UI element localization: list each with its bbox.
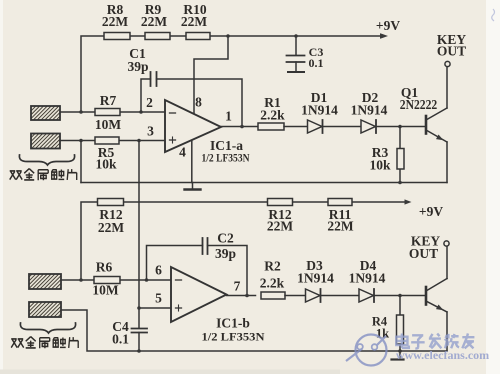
wire pin5 row bbox=[139, 307, 171, 309]
wire mid +9V rail bbox=[81, 202, 408, 280]
svg-text:1/2 LF353N: 1/2 LF353N bbox=[202, 330, 265, 344]
transistor Q1 bbox=[426, 67, 447, 183]
svg-text:+9V: +9V bbox=[419, 204, 443, 219]
resistor R11 bbox=[328, 199, 352, 206]
wire pin6 row bbox=[61, 279, 171, 281]
svg-text:R6: R6 bbox=[96, 260, 113, 275]
svg-text:22M: 22M bbox=[141, 14, 168, 29]
node R4/rail junction bbox=[398, 349, 402, 353]
svg-text:R7: R7 bbox=[100, 93, 117, 108]
op-amp U2 IC1-b bbox=[171, 267, 227, 322]
node output junction bbox=[240, 125, 244, 129]
svg-text:www.elecfans.com: www.elecfans.com bbox=[396, 348, 489, 362]
svg-text:0.1: 0.1 bbox=[112, 332, 129, 347]
wire pin8 supply drop bbox=[194, 36, 228, 114]
node pad2/ground junction bbox=[79, 139, 83, 143]
wire pin3 row bbox=[60, 140, 166, 142]
touch pad P2 bbox=[31, 134, 60, 149]
touch pad P3 bbox=[29, 274, 61, 289]
svg-text:1/2 LF353N: 1/2 LF353N bbox=[202, 151, 250, 165]
ground (C3) bbox=[288, 71, 304, 73]
capacitor C2 with feedback wire bbox=[147, 238, 248, 296]
svg-text:5: 5 bbox=[155, 291, 162, 306]
wire output pin7 row bbox=[227, 295, 256, 297]
resistor R8 bbox=[104, 33, 130, 40]
diode D3 bbox=[306, 289, 360, 302]
watermark logo elecfans bbox=[346, 335, 387, 366]
resistor R7 bbox=[95, 109, 120, 116]
watermark text 电子发烧友 bbox=[396, 333, 474, 348]
node C4 ground junction bbox=[137, 349, 141, 353]
wire top ground rail bbox=[81, 182, 447, 184]
svg-text:2.2k: 2.2k bbox=[260, 276, 285, 291]
brace (top pads) bbox=[19, 155, 74, 165]
resistor R9 bbox=[145, 33, 170, 40]
svg-text:7: 7 bbox=[234, 279, 241, 294]
wire bottom ground rail bbox=[61, 310, 447, 351]
svg-text:22M: 22M bbox=[98, 220, 125, 235]
capacitor C3 bbox=[287, 36, 305, 71]
resistor R6 bbox=[94, 277, 120, 284]
+9V mid arrow bbox=[405, 199, 412, 204]
ground (R4) bbox=[392, 358, 404, 360]
node: C3 junction bbox=[294, 34, 298, 38]
svg-text:2: 2 bbox=[146, 95, 153, 110]
touch pad P1 bbox=[31, 106, 60, 120]
svg-text:22M: 22M bbox=[327, 219, 354, 234]
resistor R1 bbox=[258, 123, 308, 130]
node pin3 junction bbox=[137, 139, 141, 143]
svg-text:3: 3 bbox=[147, 124, 154, 139]
svg-text:OUT: OUT bbox=[437, 44, 466, 59]
op-amp U1 IC1-a bbox=[165, 100, 221, 183]
wire left ground drop bbox=[80, 141, 82, 183]
node R3 ground junction bbox=[398, 181, 402, 185]
wire output pin1 row bbox=[221, 126, 258, 128]
svg-text:1N914: 1N914 bbox=[351, 103, 388, 118]
node: R10/+9V junction bbox=[226, 34, 230, 38]
resistor R5 bbox=[95, 137, 119, 144]
capacitor C4 bbox=[132, 308, 148, 351]
svg-text:22M: 22M bbox=[267, 219, 294, 234]
diode D4 bbox=[359, 289, 426, 302]
svg-text:4: 4 bbox=[179, 145, 186, 160]
svg-text:22M: 22M bbox=[102, 14, 129, 29]
svg-text:1N914: 1N914 bbox=[297, 271, 334, 286]
node pad1/rail junction bbox=[79, 110, 83, 114]
svg-text:2N2222: 2N2222 bbox=[400, 97, 438, 112]
svg-text:22M: 22M bbox=[181, 14, 208, 29]
ground (pin4) bbox=[185, 183, 201, 190]
svg-text:39p: 39p bbox=[127, 59, 148, 74]
touch pad P4 bbox=[29, 302, 61, 317]
diode D1 bbox=[308, 120, 362, 133]
node base/R4 junction bbox=[398, 294, 402, 298]
resistor R12b bbox=[268, 199, 293, 206]
svg-text:1N914: 1N914 bbox=[349, 271, 386, 286]
svg-text:10M: 10M bbox=[92, 283, 119, 298]
terminal KEY OUT (bottom) bbox=[444, 241, 449, 246]
svg-text:0.1: 0.1 bbox=[309, 56, 324, 70]
brace (bottom pads) bbox=[20, 323, 75, 333]
node base/R3 junction bbox=[398, 125, 402, 129]
+9V top arrow bbox=[380, 33, 388, 39]
node pin6/C2 junction bbox=[145, 278, 149, 282]
diode D2 bbox=[361, 120, 426, 133]
svg-text:39p: 39p bbox=[215, 246, 236, 261]
resistor R4 bbox=[397, 296, 404, 358]
node pin2/C1 junction bbox=[139, 110, 143, 114]
wire top +9V rail bbox=[81, 36, 381, 112]
svg-text:OUT: OUT bbox=[409, 246, 438, 261]
svg-text:2.2k: 2.2k bbox=[260, 108, 285, 123]
node pad3/rail junction bbox=[79, 278, 83, 282]
transistor Q2 bbox=[426, 246, 447, 351]
svg-text:10k: 10k bbox=[369, 158, 391, 173]
svg-text:C2: C2 bbox=[217, 231, 234, 246]
label 双金属触片 (bottom, drawn strokes) bbox=[11, 337, 78, 349]
svg-text:10M: 10M bbox=[95, 117, 122, 132]
svg-text:1: 1 bbox=[225, 109, 232, 124]
capacitor C1 with feedback wire bbox=[141, 72, 242, 127]
node C2/output junction bbox=[245, 294, 249, 298]
svg-text:6: 6 bbox=[155, 263, 162, 278]
svg-text:IC1-b: IC1-b bbox=[216, 316, 250, 331]
svg-text:10k: 10k bbox=[95, 157, 117, 172]
svg-text:R2: R2 bbox=[264, 259, 281, 274]
svg-text:8: 8 bbox=[195, 95, 202, 110]
wire pin3 to pin5 long vertical bbox=[138, 141, 140, 309]
wire pin2 row bbox=[60, 111, 166, 113]
terminal KEY OUT (top) bbox=[445, 61, 450, 66]
resistor R10 bbox=[186, 33, 210, 40]
node pin5 junction bbox=[137, 306, 141, 310]
resistor R2 bbox=[261, 292, 306, 299]
label 双金属触片 (top, drawn strokes) bbox=[10, 169, 77, 181]
svg-text:1N914: 1N914 bbox=[301, 103, 338, 118]
svg-text:+9V: +9V bbox=[376, 18, 400, 33]
resistor R12a bbox=[98, 199, 124, 206]
resistor R3 bbox=[397, 127, 404, 183]
